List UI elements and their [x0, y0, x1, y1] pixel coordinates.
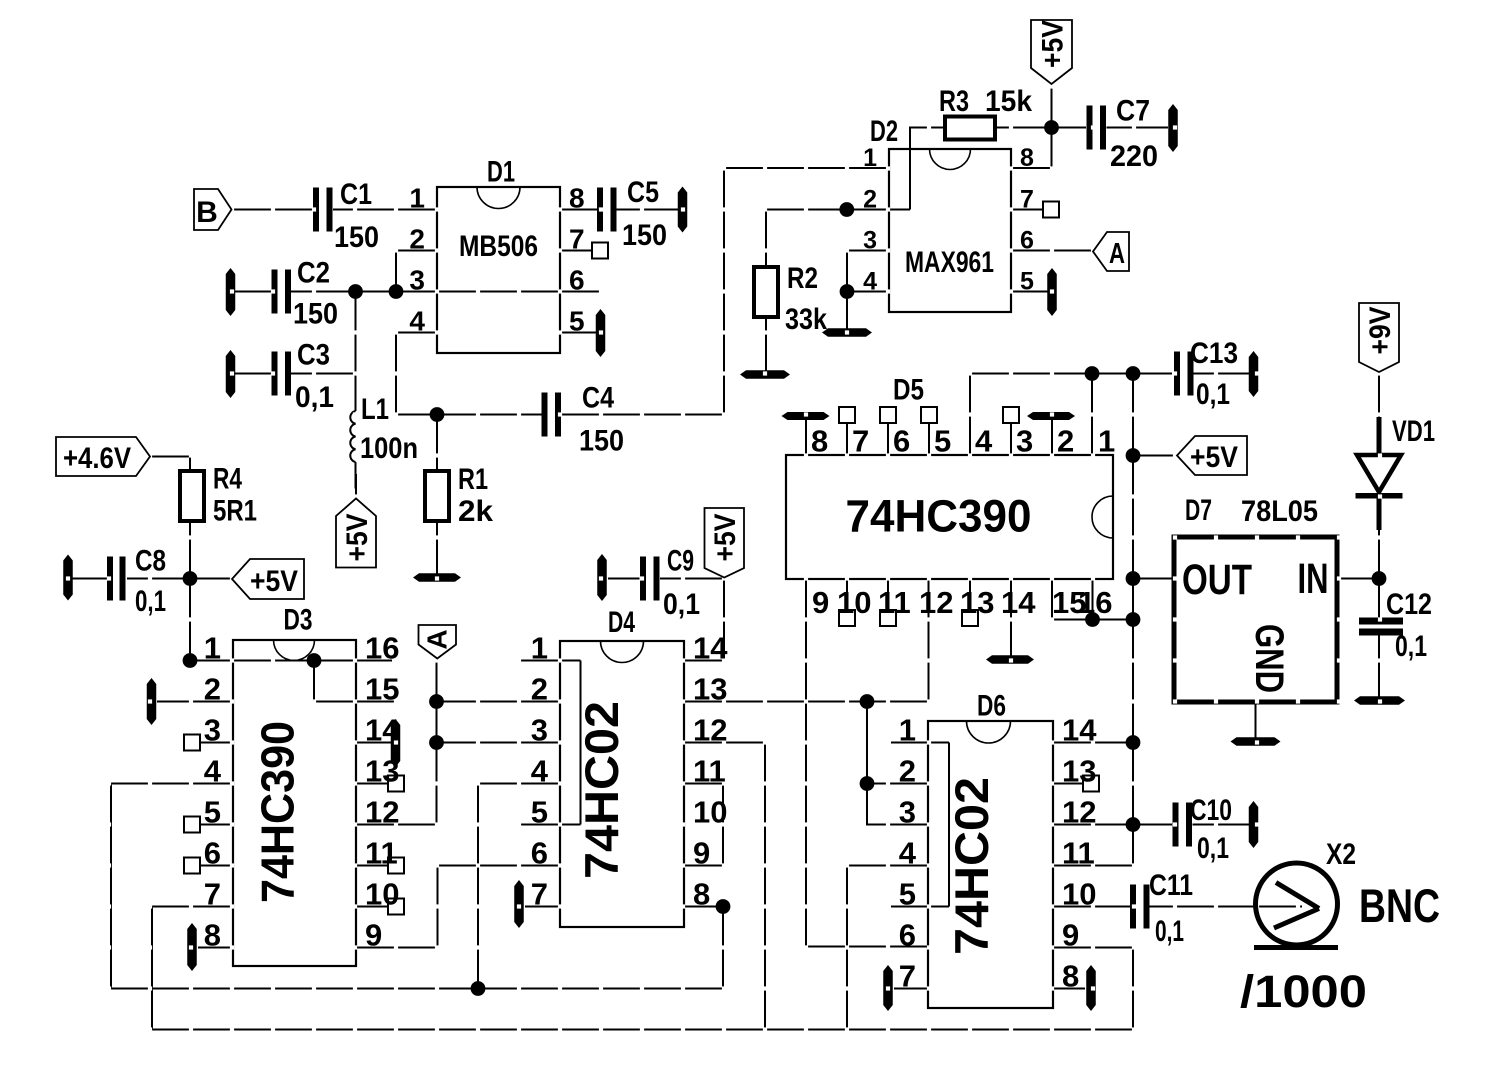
junction D2 pin2	[839, 202, 854, 217]
svg-text:+5V: +5V	[1190, 441, 1238, 474]
svg-text:X2: X2	[1326, 838, 1356, 871]
wire C7 to terminator	[1107, 126, 1169, 128]
junction D6 pin2	[860, 776, 875, 791]
wire D3 pin 5 stub	[200, 823, 233, 825]
wire D3 pin 9 to D4 pin 6	[356, 866, 560, 948]
junction rail C13	[1126, 366, 1141, 381]
svg-text:8: 8	[811, 424, 828, 459]
svg-text:8: 8	[1062, 959, 1079, 994]
svg-text:4: 4	[204, 754, 222, 789]
svg-text:1: 1	[409, 183, 425, 214]
wire D4 pin 1 stub	[520, 659, 581, 661]
ground at C12	[1354, 696, 1405, 705]
svg-text:4: 4	[409, 306, 425, 337]
svg-text:11: 11	[878, 585, 911, 620]
wire net B input to C1	[232, 208, 314, 210]
svg-text:11: 11	[693, 754, 726, 789]
svg-text:5: 5	[934, 424, 951, 459]
svg-text:0,1: 0,1	[135, 585, 166, 618]
svg-text:4: 4	[531, 754, 549, 789]
wire D1 pin 2 to pin 3 node	[396, 251, 437, 292]
wire D6 pin 11 to rail	[1053, 864, 1133, 866]
wire D5 pin 5 stub	[928, 423, 930, 455]
svg-text:14: 14	[365, 713, 400, 748]
wire C8 to junction	[127, 577, 190, 579]
open pin D5 pin 7	[839, 407, 855, 423]
svg-text:C10: C10	[1190, 794, 1232, 827]
wire D2 pin 3 to pin 4 junction	[847, 251, 889, 292]
svg-text:0,1: 0,1	[1155, 915, 1184, 948]
junction rail pin15 net	[1126, 612, 1141, 627]
terminator at D3 pin 8	[187, 923, 197, 971]
svg-text:IN: IN	[1298, 555, 1329, 603]
wire D6 internal pin1-pin5	[948, 743, 950, 907]
wire bottom bus MR net	[152, 1028, 1133, 1030]
open pin D3 pin 5	[184, 817, 200, 833]
wire D5 pin 16 drop	[1091, 579, 1093, 620]
svg-text:MAX961: MAX961	[905, 246, 994, 279]
svg-text:150: 150	[293, 298, 338, 331]
wire D6 pin 9 to bus	[1053, 948, 1133, 1030]
wire D4 pin 5 stub	[520, 823, 581, 825]
wire D7 IN to VD1 junction	[1337, 577, 1379, 579]
power flag +5V at L1	[336, 499, 376, 568]
wire D6 pin 5 stub	[891, 905, 949, 907]
wire D4 pin 4 drop	[478, 784, 560, 989]
svg-text:10: 10	[365, 877, 399, 912]
svg-text:7: 7	[852, 424, 869, 459]
svg-text:2: 2	[899, 754, 916, 789]
wire D5 pin 3 stub	[1010, 423, 1012, 455]
svg-text:9: 9	[365, 918, 382, 953]
wire D3 pin 6 stub	[200, 864, 233, 866]
svg-text:13: 13	[365, 754, 399, 789]
wire D6 pin 4 to bus	[847, 866, 928, 1030]
wire D6 pin 10 to C11	[1053, 905, 1130, 907]
svg-text:1: 1	[204, 631, 221, 666]
wire C3 to junction	[291, 372, 356, 374]
wire D6 pin 7 to terminator	[894, 987, 928, 989]
power flag +5V at rail	[1177, 436, 1247, 475]
svg-text:BNC: BNC	[1359, 879, 1440, 932]
wire D2 pin 4 stub	[847, 290, 889, 292]
svg-text:3: 3	[204, 713, 221, 748]
svg-text:0,1: 0,1	[1197, 832, 1229, 865]
svg-text:12: 12	[919, 585, 953, 620]
svg-text:5: 5	[204, 795, 221, 830]
wire R4 bottom to junction	[189, 521, 191, 579]
svg-text:2: 2	[531, 672, 548, 707]
terminator at C5	[678, 187, 688, 233]
svg-text:15k: 15k	[985, 85, 1032, 118]
wire D5 pin 1 riser	[1091, 374, 1093, 456]
IC D3 74HC390	[233, 640, 356, 966]
junction D2 pin4	[840, 284, 855, 299]
svg-text:1: 1	[531, 631, 548, 666]
open pin D2 pin 7	[1043, 202, 1059, 218]
svg-text:MB506: MB506	[459, 230, 538, 263]
junction D5 pin1 net	[1085, 366, 1100, 381]
svg-text:5: 5	[899, 877, 916, 912]
svg-text:2: 2	[863, 186, 877, 214]
svg-text:6: 6	[569, 265, 585, 296]
svg-text:C8: C8	[135, 545, 166, 578]
svg-text:78L05: 78L05	[1241, 495, 1318, 528]
svg-text:74HC02: 74HC02	[575, 701, 628, 879]
wire C10 to terminator	[1193, 823, 1250, 825]
wire D3 pin 11 stub	[356, 864, 388, 866]
wire D2 pin4 junction to ground	[846, 292, 848, 330]
svg-text:8: 8	[1020, 144, 1034, 172]
svg-text:9: 9	[812, 585, 829, 620]
svg-text:2: 2	[204, 672, 221, 707]
svg-text:74HC390: 74HC390	[252, 721, 304, 903]
bar at D5 pin 8	[782, 412, 830, 420]
wire net D5 pins 4-1 to C13	[970, 372, 1172, 374]
wire C12 to ground	[1378, 634, 1380, 698]
inductor L1	[350, 411, 355, 462]
capacitor C9	[640, 557, 646, 601]
open pin D5 pin 5	[921, 407, 937, 423]
resistor R2	[754, 267, 778, 317]
junction D1 pin2	[389, 284, 404, 299]
svg-text:14: 14	[1001, 585, 1036, 620]
junction rail D6 pin14	[1126, 735, 1141, 750]
svg-text:14: 14	[1062, 713, 1097, 748]
wire D3 pin 3 stub	[200, 741, 233, 743]
svg-text:8: 8	[204, 918, 221, 953]
open pin D5 pin 3	[1003, 407, 1019, 423]
wire D1 pin 4 to R1/C4 junction	[396, 333, 437, 415]
terminator at C2	[226, 268, 236, 316]
wire D4 pin 12 to bus	[684, 743, 765, 1030]
wire D7 GND to ground	[1254, 702, 1256, 738]
wire D5 pin 2 bar stem	[1051, 420, 1053, 455]
svg-text:OUT: OUT	[1182, 556, 1252, 604]
svg-text:16: 16	[1078, 585, 1112, 620]
wire C2 left bar to plates	[235, 290, 271, 292]
capacitor C1	[313, 188, 319, 232]
wire D6 pin 1 stub	[891, 741, 949, 743]
wire D7 OUT to rail	[1133, 577, 1174, 579]
wire C2 to junction	[291, 290, 356, 292]
svg-text:2: 2	[409, 224, 425, 255]
svg-text:/1000: /1000	[1240, 966, 1367, 1017]
junction D3 pin1	[183, 653, 198, 668]
wire D5 pin 14 to ground	[1010, 579, 1012, 656]
svg-text:74HC390: 74HC390	[846, 491, 1032, 542]
wire +5V flag riser to D4 pin 14	[684, 578, 724, 661]
svg-text:VD1: VD1	[1392, 415, 1435, 448]
resistor R4	[180, 471, 204, 521]
junction R3 +5V C7	[1044, 120, 1059, 135]
svg-text:10: 10	[1062, 877, 1096, 912]
svg-text:1: 1	[863, 144, 877, 172]
svg-text:R1: R1	[458, 463, 488, 496]
wire C4 to D2 pin 1	[561, 168, 889, 415]
power flag +5V at C8	[232, 559, 304, 599]
open pin D6 pin 13	[1083, 776, 1099, 792]
svg-text:4: 4	[863, 268, 877, 296]
svg-text:4: 4	[975, 424, 993, 459]
wire D5 pin 13 stub	[969, 579, 971, 610]
svg-text:5R1: 5R1	[213, 495, 257, 528]
svg-text:6: 6	[893, 424, 910, 459]
svg-text:1: 1	[1098, 424, 1115, 459]
wire junction to C12	[1378, 579, 1380, 619]
terminator at D6 pin 7	[883, 965, 893, 1011]
svg-text:D4: D4	[608, 606, 635, 639]
wire D5 pin 7 stub	[846, 423, 848, 455]
terminator at C8	[63, 555, 73, 601]
svg-text:R4: R4	[213, 463, 242, 496]
wire C11 to BNC X2	[1150, 905, 1303, 907]
ground at D2 pin 4	[822, 328, 872, 337]
wire junction C3 to L1 top	[354, 374, 356, 412]
svg-text:C7: C7	[1116, 95, 1150, 128]
wire D5 pin 12 drop	[927, 579, 929, 702]
bar at D5 pin 2	[1027, 412, 1075, 420]
wire D1 pin 8 to C5	[560, 208, 597, 210]
node A flag at D2	[1093, 232, 1129, 271]
svg-text:C1: C1	[340, 178, 372, 211]
wire junction drop to D6 pins 2 3	[867, 702, 928, 825]
power flag +4.6V	[56, 437, 150, 476]
capacitor C7	[1087, 106, 1093, 150]
svg-text:+9V: +9V	[1364, 307, 1397, 355]
svg-text:+5V: +5V	[341, 514, 374, 562]
wire D2 pin 7 stub	[1011, 208, 1043, 210]
open pin D5 pin 6	[880, 407, 896, 423]
wire D1 pin 7 stub	[560, 249, 592, 251]
open pin D3 pin 11	[388, 858, 404, 874]
svg-text:D7: D7	[1185, 494, 1212, 527]
IC D6 74HC02	[928, 721, 1053, 1008]
svg-text:8: 8	[693, 877, 710, 912]
junction rail +5V flag	[1126, 448, 1141, 463]
wire D5 pin 6 stub	[887, 423, 889, 455]
terminator at C10	[1249, 801, 1259, 848]
wire net D2 pin 2 horizontal	[766, 208, 910, 210]
wire C9 to +5V riser	[660, 577, 724, 579]
wire D2 pin 6 to flag A	[1011, 249, 1093, 251]
svg-text:2k: 2k	[458, 495, 493, 528]
svg-text:9: 9	[1062, 918, 1079, 953]
svg-text:15: 15	[365, 672, 399, 707]
IC D4 74HC02	[560, 641, 684, 927]
wire R3 left leg	[910, 128, 945, 210]
wire +5V flag to rail	[1133, 454, 1177, 456]
wire +5V flag to R3 junction	[1050, 84, 1052, 128]
svg-text:100n: 100n	[360, 432, 418, 465]
junction A D4 pin3	[429, 735, 444, 750]
open pin D3 pin 6	[184, 858, 200, 874]
capacitor C10	[1173, 803, 1179, 847]
capacitor C3	[272, 352, 278, 396]
wire +9V flag to VD1	[1378, 372, 1380, 418]
open pin D5 pin 10	[839, 610, 855, 626]
wire D2 pin 5 to terminator	[1011, 290, 1051, 292]
wire D3 pin 7 to bus	[152, 907, 233, 1030]
junction net13 D6	[860, 694, 875, 709]
capacitor C12	[1359, 618, 1403, 625]
wire +5V rail vertical	[1132, 374, 1134, 866]
wire +4.6V flag to R4 top	[150, 457, 190, 472]
svg-text:9: 9	[693, 836, 710, 871]
capacitor C13	[1174, 352, 1180, 396]
open pin D1 pin 7	[592, 243, 608, 259]
svg-text:+5V: +5V	[1037, 20, 1070, 68]
svg-text:33k: 33k	[785, 303, 827, 336]
terminator at D3 pin 14	[391, 719, 401, 767]
capacitor C5	[597, 188, 603, 232]
wire VD1 anode lead	[1377, 417, 1382, 456]
open pin D3 pin 3	[184, 735, 200, 751]
junction C2 pin3	[348, 284, 363, 299]
svg-text:74HC02: 74HC02	[945, 777, 998, 955]
svg-text:6: 6	[899, 918, 916, 953]
junction VD1 IN C12	[1372, 571, 1387, 586]
resistor R3	[945, 117, 995, 140]
svg-text:3: 3	[863, 227, 877, 255]
svg-text:13: 13	[1062, 754, 1096, 789]
terminator at D4 pin 7	[514, 880, 524, 928]
svg-text:C9: C9	[667, 545, 694, 578]
svg-text:C3: C3	[297, 339, 330, 372]
wire C8 bar to plates	[72, 577, 107, 579]
svg-text:150: 150	[579, 425, 624, 458]
svg-text:7: 7	[1020, 186, 1034, 214]
power flag +9V	[1359, 303, 1399, 372]
ground at R1	[413, 573, 461, 582]
junction bus D4 pin4	[471, 981, 486, 996]
capacitor C2	[272, 270, 278, 314]
svg-text:D5: D5	[893, 374, 924, 407]
svg-text:0,1: 0,1	[663, 588, 700, 621]
svg-text:D1: D1	[487, 156, 515, 189]
svg-text:B: B	[196, 196, 218, 229]
svg-text:2: 2	[1057, 424, 1074, 459]
ground at R2	[740, 370, 790, 379]
svg-text:7: 7	[899, 959, 916, 994]
wire VD1 to IN junction	[1378, 529, 1380, 579]
wire D4 pin 11 to pin 9	[684, 784, 723, 866]
svg-text:7: 7	[569, 224, 585, 255]
terminator at C9	[597, 554, 607, 601]
junction A D4 pin2	[429, 694, 444, 709]
svg-text:16: 16	[365, 631, 399, 666]
wire junction to +5V flag	[190, 577, 232, 579]
wire D4 pin 7 to terminator	[525, 905, 560, 907]
wire C13 to terminator	[1194, 372, 1250, 374]
svg-text:A: A	[422, 629, 453, 649]
IC D2 MAX961	[889, 149, 1011, 312]
svg-text:L1: L1	[361, 393, 389, 426]
power flag +5V at R3	[1031, 20, 1072, 84]
wire VD1 cathode lead	[1377, 496, 1382, 530]
wire D6 pin 13 stub	[1053, 782, 1083, 784]
wire D3 pin 8 to terminator	[198, 946, 233, 948]
diode VD1	[1357, 455, 1401, 492]
wire D5 pin 9 to D6 pin 6	[806, 579, 928, 947]
svg-text:12: 12	[1062, 795, 1096, 830]
svg-text:150: 150	[622, 219, 667, 252]
wire D6 pin 8 to terminator	[1053, 987, 1085, 989]
svg-text:12: 12	[365, 795, 399, 830]
svg-text:6: 6	[204, 836, 221, 871]
resistor R1	[425, 471, 449, 521]
svg-text:D3: D3	[284, 604, 313, 637]
svg-text:13: 13	[960, 585, 994, 620]
open pin D5 pin 13	[962, 610, 978, 626]
svg-text:11: 11	[365, 836, 398, 871]
svg-text:150: 150	[334, 221, 379, 254]
svg-text:R3: R3	[939, 85, 969, 118]
wire R1 bottom to ground	[436, 521, 438, 574]
wire net D4 pin 13 horizontal	[684, 700, 929, 702]
wire D1 pin 5 to terminator	[560, 331, 596, 333]
wire C3 left bar to plates	[235, 372, 271, 374]
svg-text:4: 4	[899, 836, 917, 871]
wire D3 pin 12 to node A	[356, 823, 437, 825]
capacitor C8	[107, 557, 113, 601]
svg-text:A: A	[1109, 238, 1125, 270]
terminator at D2 pin 5	[1047, 268, 1057, 316]
svg-text:7: 7	[204, 877, 221, 912]
svg-text:0,1: 0,1	[1395, 630, 1427, 663]
svg-text:C2: C2	[297, 257, 330, 290]
open pin D5 pin 11	[880, 610, 896, 626]
wire D6 pin 12 to rail C10	[1053, 823, 1172, 825]
wire D4 pin 3 to node A	[437, 741, 561, 743]
svg-text:7: 7	[531, 877, 548, 912]
wire D3 pin 10 stub	[356, 905, 388, 907]
wire junction C2 to junction C3	[354, 292, 356, 374]
IC D1 MB506	[437, 187, 560, 353]
svg-text:13: 13	[693, 672, 727, 707]
svg-text:3: 3	[409, 265, 425, 296]
wire L1 bottom to +5V flag	[354, 462, 357, 499]
svg-text:3: 3	[531, 713, 548, 748]
wire D3 pin 4 to bus 988	[111, 784, 723, 989]
svg-text:12: 12	[693, 713, 727, 748]
wire D5 pin 10 stub	[846, 579, 848, 610]
IC D7 78L05 regulator	[1174, 537, 1337, 702]
wire junction to C4	[437, 413, 542, 415]
svg-text:10: 10	[693, 795, 727, 830]
wire to D6 pin 2	[867, 782, 928, 784]
wire D3 pin 2 to terminator	[157, 700, 233, 702]
svg-text:5: 5	[569, 306, 585, 337]
IC D5 74HC390	[786, 455, 1113, 579]
junction D3 pin16	[307, 653, 322, 668]
wire net D3 pin1 pin16	[190, 659, 392, 661]
connector X2 BNC	[1256, 863, 1338, 945]
ground at D7 GND	[1231, 737, 1281, 746]
wire D4 pin 2 to node A	[437, 700, 561, 702]
wire R2 bottom to ground	[765, 317, 767, 371]
terminator at D1 pin 5	[596, 309, 606, 357]
node B flag	[194, 189, 232, 230]
terminator at C7	[1168, 104, 1178, 152]
svg-text:R2: R2	[787, 262, 818, 295]
wire D3 pin 14 to terminator	[356, 741, 391, 743]
wire D6 pin 14 to rail	[1053, 741, 1133, 743]
junction D5 pin16	[1085, 612, 1100, 627]
junction R1 C4	[430, 407, 445, 422]
svg-text:10: 10	[837, 585, 871, 620]
open pin D3 pin 10	[388, 899, 404, 915]
